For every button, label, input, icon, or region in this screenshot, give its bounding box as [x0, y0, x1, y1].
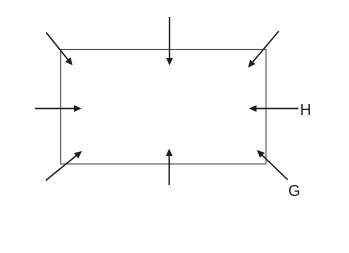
svg-text:H: H: [300, 102, 311, 119]
arrow left-middle: [35, 105, 82, 112]
arrow top-left: [46, 33, 72, 66]
arrow bottom-right: [257, 150, 288, 180]
arrow right-middle: [249, 105, 299, 112]
arrow top-right: [248, 31, 279, 67]
arrow bottom-left: [46, 151, 82, 180]
arrow top-middle: [166, 17, 173, 66]
rectangle body: [61, 49, 266, 164]
svg-text:G: G: [288, 183, 300, 200]
arrow bottom-middle: [166, 149, 173, 186]
